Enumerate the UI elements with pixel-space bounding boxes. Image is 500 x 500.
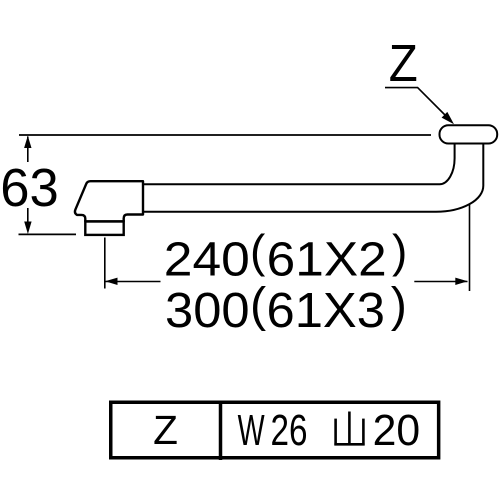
svg-text:240: 240 [164, 233, 250, 286]
extension line right (pipe center) [469, 204, 471, 292]
svg-text:W: W [238, 407, 265, 455]
connector stadium [440, 125, 498, 143]
Z leader arrowhead [442, 112, 454, 124]
arrow up [24, 136, 31, 148]
arrow down [24, 222, 31, 235]
svg-text:20: 20 [373, 407, 421, 455]
top reference line [19, 134, 431, 136]
pipe bottom line with outer bend [143, 145, 483, 212]
dim line right segment [414, 281, 467, 283]
arrow right [455, 278, 467, 285]
svg-text:Z: Z [153, 407, 178, 453]
svg-text:): ) [392, 225, 407, 277]
table divider [219, 401, 223, 461]
arrow left [105, 278, 117, 285]
svg-text:61X2: 61X2 [267, 233, 387, 286]
svg-text:(: ( [250, 225, 266, 277]
svg-text:61X3: 61X3 [267, 283, 386, 338]
svg-text:): ) [391, 278, 407, 332]
Z leader line [385, 88, 447, 117]
svg-text:63: 63 [0, 159, 59, 218]
table [111, 402, 439, 458]
dim line left segment [105, 281, 160, 283]
extension line left (aerator center) [104, 238, 106, 289]
dimension 63 vertical line bottom segment [27, 208, 29, 222]
spout head [75, 181, 143, 221]
svg-text:26: 26 [271, 407, 308, 455]
svg-text:Z: Z [389, 34, 418, 92]
aerator [85, 221, 123, 235]
pipe top line with inner bend [143, 145, 455, 185]
bottom extension line of 63 [19, 233, 77, 235]
svg-text:300: 300 [165, 283, 250, 338]
table glyph yama [334, 412, 364, 446]
dimension 63 vertical line top segment [27, 137, 29, 163]
svg-text:(: ( [250, 278, 266, 332]
